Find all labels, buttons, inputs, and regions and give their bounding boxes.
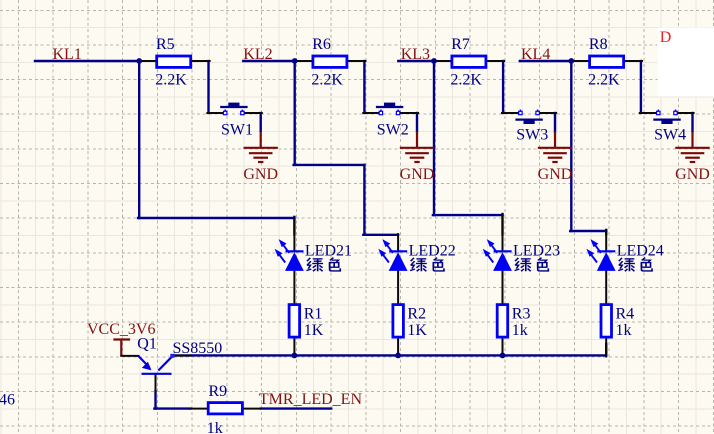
svg-text:2.2K: 2.2K <box>588 72 620 89</box>
svg-text:R6: R6 <box>312 36 331 53</box>
svg-text:GND: GND <box>243 166 278 183</box>
svg-text:LED21: LED21 <box>305 242 352 259</box>
svg-text:1k: 1k <box>512 322 528 339</box>
svg-text:TMR_LED_EN: TMR_LED_EN <box>259 391 363 408</box>
svg-text:SS8550: SS8550 <box>173 340 223 357</box>
svg-text:2.2K: 2.2K <box>311 72 343 89</box>
svg-text:GND: GND <box>400 166 435 183</box>
svg-text:SW2: SW2 <box>377 122 409 139</box>
svg-text:46: 46 <box>0 391 15 408</box>
svg-text:D: D <box>660 29 672 46</box>
svg-text:R4: R4 <box>616 306 635 323</box>
svg-text:LED24: LED24 <box>617 242 664 259</box>
svg-text:VCC_3V6: VCC_3V6 <box>87 321 155 338</box>
svg-text:2.2K: 2.2K <box>155 72 187 89</box>
svg-text:2.2K: 2.2K <box>450 72 482 89</box>
svg-text:1K: 1K <box>304 322 324 339</box>
svg-text:1k: 1k <box>616 322 632 339</box>
svg-text:GND: GND <box>538 166 573 183</box>
svg-text:R7: R7 <box>451 36 470 53</box>
svg-text:R1: R1 <box>304 306 323 323</box>
svg-text:KL2: KL2 <box>243 46 272 63</box>
svg-text:KL4: KL4 <box>521 46 550 63</box>
svg-text:LED22: LED22 <box>409 242 456 259</box>
svg-text:GND: GND <box>675 166 710 183</box>
svg-text:R8: R8 <box>589 36 608 53</box>
svg-text:R2: R2 <box>407 306 426 323</box>
svg-text:SW1: SW1 <box>221 122 253 139</box>
svg-text:R3: R3 <box>512 306 531 323</box>
svg-text:KL1: KL1 <box>53 46 82 63</box>
svg-text:1k: 1k <box>207 420 223 434</box>
svg-text:1K: 1K <box>407 322 427 339</box>
svg-text:R5: R5 <box>156 36 175 53</box>
svg-text:SW4: SW4 <box>654 127 686 144</box>
svg-text:LED23: LED23 <box>513 242 560 259</box>
svg-text:SW3: SW3 <box>516 127 548 144</box>
svg-text:KL3: KL3 <box>401 46 430 63</box>
svg-text:R9: R9 <box>209 383 228 400</box>
